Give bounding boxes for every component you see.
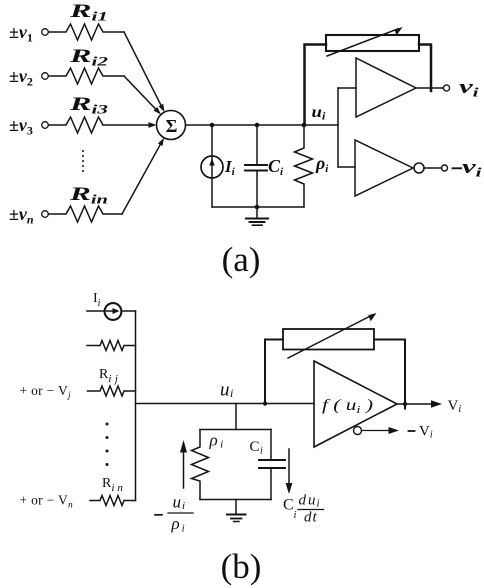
svg-text:(a): (a) (222, 240, 261, 279)
svg-text:dt: dt (304, 510, 318, 526)
svg-text:(b): (b) (221, 547, 262, 586)
svg-text:f ( ui ): f ( ui ) (322, 397, 373, 416)
svg-text:Σ: Σ (166, 116, 178, 136)
